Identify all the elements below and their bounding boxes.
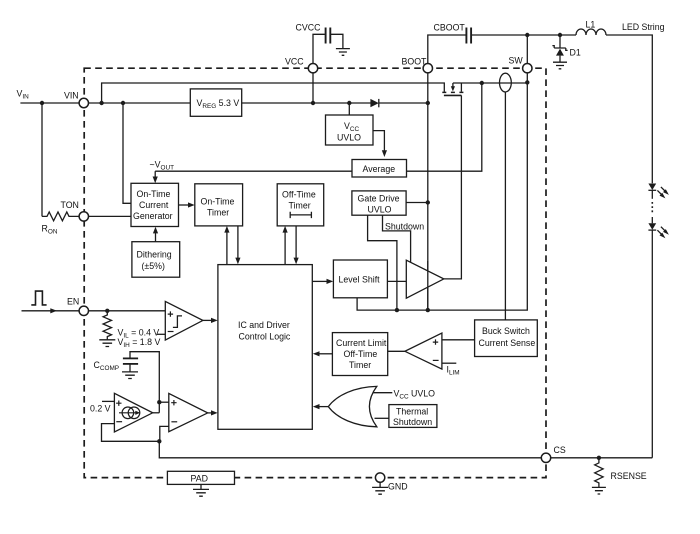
svg-text:D1: D1 xyxy=(570,48,581,58)
svg-text:Current Limit: Current Limit xyxy=(336,338,387,348)
wire LED string top xyxy=(606,35,652,183)
svg-text:Thermal: Thermal xyxy=(396,407,428,417)
wire driver output to gate xyxy=(444,95,462,279)
svg-text:BOOT: BOOT xyxy=(402,57,428,67)
svg-text:CS: CS xyxy=(554,445,566,455)
resistor EN pulldown xyxy=(103,311,111,340)
box On-Time Current Generator xyxy=(131,183,179,226)
wire CLOT output arrow to logic xyxy=(313,351,333,356)
svg-text:IC and Driver: IC and Driver xyxy=(238,320,290,330)
pin TON xyxy=(61,200,89,221)
svg-text:Average: Average xyxy=(363,164,396,174)
pin EN xyxy=(67,297,89,316)
pin BOOT xyxy=(402,57,433,73)
label VCC UVLO input xyxy=(394,389,436,401)
wire OTT up arrow xyxy=(224,226,229,265)
wire EN comp minus stub xyxy=(157,333,166,335)
box Current Limit Off-Time Timer xyxy=(332,333,387,376)
wire sense lead to BSCS xyxy=(504,92,506,320)
wire VREG output xyxy=(242,102,371,104)
pin CS xyxy=(541,445,566,462)
wire OTCG to OTT arrow xyxy=(179,202,195,207)
svg-text:Shutdown: Shutdown xyxy=(393,417,432,427)
node feedback junction xyxy=(157,439,161,443)
node SW top junction xyxy=(525,33,529,37)
svg-text:Generator: Generator xyxy=(133,211,173,221)
label RON xyxy=(42,224,58,236)
wire BSCS to comparator plus xyxy=(442,339,475,341)
IC boundary dashed box xyxy=(84,68,546,477)
or-gate U7 xyxy=(328,386,377,426)
wire RON feed vertical xyxy=(41,103,43,216)
op-amp U6 current limit comparator xyxy=(405,333,442,369)
capacitor CBOOT xyxy=(428,23,576,64)
wire BOOT vertical through driver xyxy=(427,261,429,310)
wire error amp minus feedback xyxy=(102,424,160,442)
wire shutdown output xyxy=(383,215,411,262)
node average tap xyxy=(480,81,484,85)
wire CS to RSENSE xyxy=(551,457,653,459)
pin VCC xyxy=(285,57,318,73)
node EN pulldown tap xyxy=(105,309,109,313)
op-amp U3 EN comparator xyxy=(165,301,203,340)
svg-text:Shutdown: Shutdown xyxy=(385,221,424,231)
resistor RON xyxy=(42,212,79,221)
wire SW up lead xyxy=(526,35,528,64)
node comp node xyxy=(157,400,161,404)
node VCC junction xyxy=(311,101,315,105)
wire drain top line from VIN xyxy=(102,83,445,103)
wire BOOT vertical xyxy=(427,73,429,310)
svg-text:(±5%): (±5%) xyxy=(142,261,165,271)
wire TON to OTCG xyxy=(89,215,131,217)
pulse symbol EN input xyxy=(31,291,46,305)
box Thermal Shutdown xyxy=(389,405,437,428)
wire SW vertical to level shift return xyxy=(357,73,527,310)
label VIN source xyxy=(17,89,30,101)
ground PAD xyxy=(193,484,209,496)
resistor RSENSE xyxy=(595,458,603,487)
svg-text:Timer: Timer xyxy=(207,208,229,218)
box PAD xyxy=(167,471,234,484)
op-amp U2 gate driver xyxy=(406,260,444,298)
box On-Time Timer xyxy=(195,184,243,226)
ground CVCC xyxy=(336,49,350,56)
LED D4 xyxy=(648,217,669,458)
label 0.2V reference xyxy=(90,404,111,414)
node gate drive return A xyxy=(395,308,399,312)
wire PWM comparator output arrow xyxy=(208,410,218,415)
wire EN to comparator xyxy=(89,310,166,312)
diode internal VCC xyxy=(370,99,427,107)
label Shutdown xyxy=(385,221,424,231)
pin GND xyxy=(375,473,407,492)
wire gate drive uvlo left output xyxy=(368,215,397,310)
wire error amp plus stub xyxy=(102,400,114,402)
box VCC UVLO xyxy=(326,115,374,145)
op-amp U4 error amplifier xyxy=(114,393,152,432)
wire EN input xyxy=(22,308,80,313)
pin VIN xyxy=(64,91,89,108)
ground GND pin xyxy=(372,482,388,494)
svg-text:L1: L1 xyxy=(586,20,596,30)
wire dithering arrow xyxy=(153,227,158,242)
wire comparator minus branch xyxy=(160,426,169,441)
svg-text:Off-Time: Off-Time xyxy=(282,190,316,200)
svg-text:Current: Current xyxy=(139,200,169,210)
box Gate Drive UVLO xyxy=(352,191,406,215)
svg-text:Off-Time: Off-Time xyxy=(344,349,378,359)
node VCC UVLO tap xyxy=(347,101,351,105)
LED D3 xyxy=(648,184,669,199)
label VIL VIH thresholds xyxy=(118,327,161,349)
wire dotted LED continuation xyxy=(651,202,653,214)
svg-text:PAD: PAD xyxy=(191,473,208,483)
svg-text:TON: TON xyxy=(61,200,79,210)
svg-text:Current Sense: Current Sense xyxy=(479,338,536,348)
wire VCC UVLO lead xyxy=(348,103,350,115)
wire average to switch tap xyxy=(407,83,482,171)
box Dithering xyxy=(132,242,180,278)
wire VCC UVLO down arrow xyxy=(373,131,387,157)
svg-text:On-Time: On-Time xyxy=(201,197,235,207)
wire VIN to OTCG xyxy=(123,103,131,203)
ground D1 xyxy=(553,62,567,69)
wire level shift to driver xyxy=(387,280,406,282)
svg-text:LED String: LED String xyxy=(622,22,665,32)
wire error amp output xyxy=(153,412,160,414)
node VIN OTCG tap xyxy=(121,101,125,105)
svg-text:Level Shift: Level Shift xyxy=(339,275,381,285)
label ~VOUT xyxy=(150,160,175,172)
box IC and Driver Control Logic xyxy=(218,265,312,430)
inductor L1 xyxy=(576,20,606,36)
node RSENSE junction xyxy=(597,456,601,460)
svg-text:Timer: Timer xyxy=(349,360,371,370)
ground EN pulldown xyxy=(99,340,115,347)
node VIN-RON junction xyxy=(40,101,44,105)
wire VCC UVLO input stub xyxy=(374,392,393,394)
svg-text:Control Logic: Control Logic xyxy=(239,332,291,342)
wire ILIM stub xyxy=(442,362,456,364)
svg-text:UVLO: UVLO xyxy=(337,133,361,143)
wire VOUT average line xyxy=(153,171,352,183)
node D1 junction xyxy=(558,33,562,37)
svg-text:Dithering: Dithering xyxy=(137,250,172,260)
wire CS feedback line xyxy=(159,441,541,458)
wire logic to level shift arrow xyxy=(312,279,333,284)
svg-text:CBOOT: CBOOT xyxy=(434,23,466,33)
svg-text:0.2 V: 0.2 V xyxy=(90,404,111,414)
wire MOSFET source to SW xyxy=(453,82,527,84)
capacitor CCOMP xyxy=(94,352,160,413)
svg-text:VCC: VCC xyxy=(285,57,304,67)
wire OffTT up arrow xyxy=(283,226,288,265)
svg-text:On-Time: On-Time xyxy=(137,189,171,199)
wire comparator to CLOT xyxy=(388,350,405,352)
current sense loop xyxy=(500,73,512,92)
wire gate drive uvlo right lead xyxy=(406,202,428,204)
svg-text:GND: GND xyxy=(388,482,408,492)
MOSFET Q1 buck switch xyxy=(442,83,463,95)
ground RSENSE xyxy=(592,487,606,494)
label ILIM xyxy=(447,365,460,377)
box Buck Switch Current Sense xyxy=(475,320,538,357)
box Off-Time Timer xyxy=(277,184,324,226)
diode D1 schottky xyxy=(552,35,580,62)
node gduvlo boot junction xyxy=(426,200,430,204)
label RSENSE xyxy=(611,471,647,481)
svg-text:Buck Switch: Buck Switch xyxy=(482,326,530,336)
node SW drain junction xyxy=(525,80,529,84)
svg-text:CVCC: CVCC xyxy=(296,23,322,33)
wire VCC pin lead xyxy=(312,73,314,104)
op-amp U5 PWM comparator xyxy=(169,393,208,431)
wire EN comp output arrow xyxy=(203,318,218,323)
svg-text:SW: SW xyxy=(509,56,524,66)
ground CCOMP xyxy=(122,372,138,379)
node VIN top tap xyxy=(99,101,103,105)
capacitor CVCC xyxy=(296,23,343,64)
svg-text:VIN: VIN xyxy=(64,91,79,101)
svg-text:Timer: Timer xyxy=(289,201,311,211)
wire thermal shutdown to OR xyxy=(375,417,389,419)
wire VIN input line xyxy=(20,102,190,104)
svg-text:UVLO: UVLO xyxy=(368,204,392,214)
pin SW xyxy=(509,56,533,73)
label LED String xyxy=(622,22,665,32)
wire OR output arrow xyxy=(313,404,329,409)
node BOOT diode junction xyxy=(426,101,430,105)
wire OTT down arrow xyxy=(235,226,240,264)
node boot return B xyxy=(426,308,430,312)
box Average xyxy=(352,160,407,178)
box Level Shift xyxy=(333,260,387,298)
wire comp node to comparator plus xyxy=(159,401,169,403)
svg-text:Gate Drive: Gate Drive xyxy=(358,193,400,203)
resistor box VREG 5.3V xyxy=(190,89,241,116)
svg-text:EN: EN xyxy=(67,297,79,307)
svg-text:RSENSE: RSENSE xyxy=(611,471,647,481)
wire OffTT down arrow xyxy=(294,226,299,264)
